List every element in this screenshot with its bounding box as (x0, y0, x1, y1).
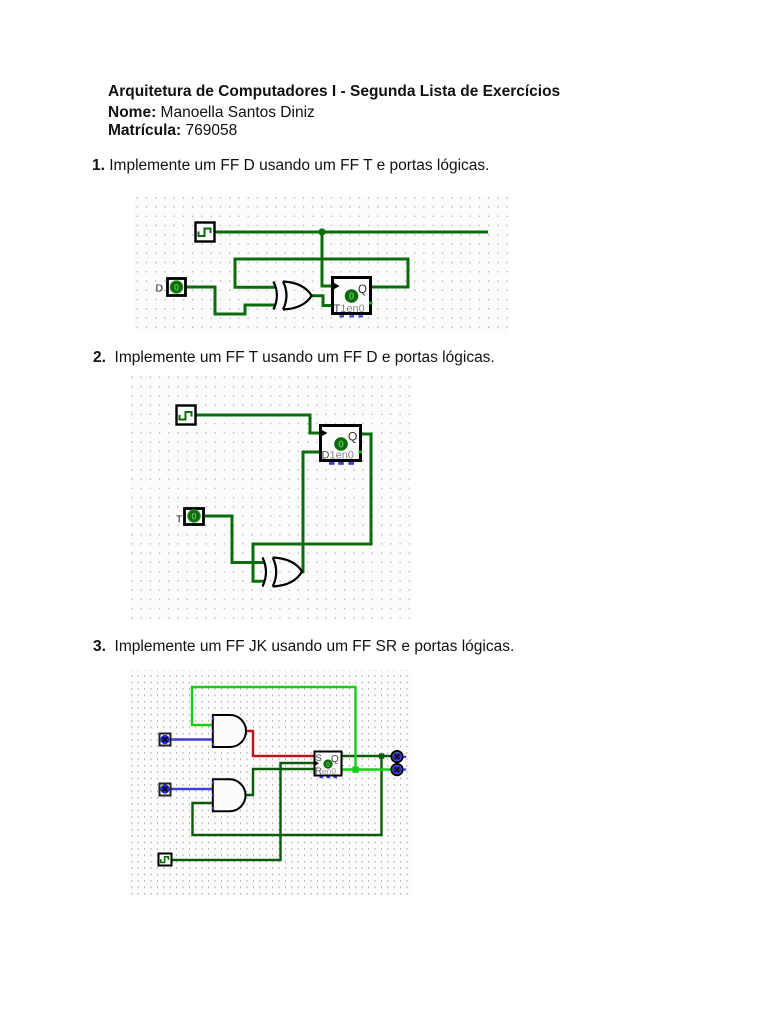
clock source CLK1 (196, 223, 215, 242)
node Q junction (379, 753, 384, 758)
svg-text:S: S (316, 753, 322, 764)
svg-text:T1en0: T1en0 (334, 303, 365, 315)
svg-text:Ren0: Ren0 (315, 766, 336, 777)
wire Qbar output to pin (342, 768, 391, 770)
wire XOR output to FF D input (301, 452, 321, 572)
wire Q feedback to XOR upper input (235, 259, 408, 287)
wire Qbar bright green feedback loop to AND1 (192, 687, 356, 770)
T flip-flop U1 (333, 278, 373, 318)
wire clock to FF clk (195, 415, 320, 433)
wire T input to XOR upper input (205, 516, 264, 563)
SR flip-flop U3 (315, 752, 342, 779)
svg-text:0: 0 (191, 511, 196, 522)
item 2 text (93, 349, 495, 367)
and gate G3 top (212, 715, 246, 747)
circuit 2 schematic (130, 376, 411, 619)
wire Q output to pin (342, 755, 392, 757)
header name (108, 104, 315, 122)
wire Q feedback to AND2 lower input (193, 756, 382, 835)
svg-text:Q: Q (358, 284, 367, 296)
svg-text:0: 0 (174, 282, 179, 293)
xor gate G2 (263, 558, 303, 587)
item 1 text (92, 157, 489, 175)
wire Q feedback to XOR lower input (253, 434, 371, 581)
D flip-flop U2 (321, 426, 363, 465)
and gate G4 bottom (212, 779, 246, 811)
wire blue input 1 (170, 738, 213, 740)
header title (108, 83, 560, 101)
svg-text:D1en0: D1en0 (322, 450, 354, 462)
input pin D (168, 279, 186, 296)
svg-text:Q: Q (348, 430, 357, 444)
wire clock to FF clk (322, 232, 332, 286)
output pin Qbar (391, 764, 402, 775)
header matricula (108, 122, 237, 140)
svg-text:T: T (176, 514, 183, 526)
pin stub marks (403, 756, 406, 758)
clock source CLK2 (177, 406, 196, 425)
xor gate G1 (273, 282, 311, 310)
wire XOR output to FF T input (310, 296, 332, 306)
svg-text:0: 0 (349, 292, 355, 303)
clock source CLK3 (159, 854, 172, 866)
circuit 1 schematic (134, 196, 509, 334)
wire AND2 output to R (246, 769, 314, 795)
wire AND1 output red to S (247, 731, 314, 756)
node junction on clock wire (318, 228, 325, 235)
input pin T (185, 509, 204, 525)
output pin Q (391, 751, 402, 762)
wire D input to XOR lower input (186, 287, 275, 314)
circuit 3 schematic (128, 670, 412, 895)
wire blue input 2 (170, 788, 213, 790)
node bright green junction (352, 766, 358, 772)
svg-text:D: D (156, 283, 164, 295)
wire clock horizontal (215, 231, 488, 234)
input pin K (160, 784, 171, 796)
wire clock to FF clk (172, 763, 314, 860)
item 3 text (93, 638, 514, 656)
input pin J (160, 734, 171, 746)
